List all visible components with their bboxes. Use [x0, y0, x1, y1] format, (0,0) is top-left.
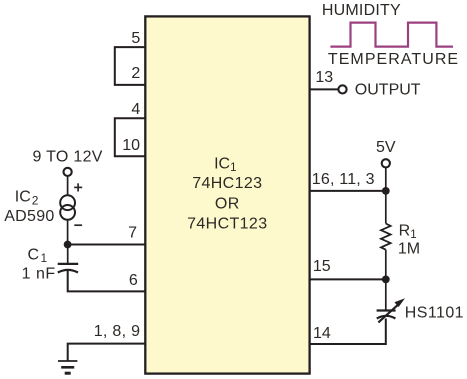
- svg-text:1, 8, 9: 1, 8, 9: [94, 323, 141, 340]
- svg-text:10: 10: [122, 137, 140, 154]
- wire: jumper connecting pin 4 to pin 10: [115, 118, 146, 156]
- svg-text:16, 11, 3: 16, 11, 3: [312, 171, 375, 188]
- svg-text:9 TO 12V: 9 TO 12V: [32, 149, 102, 166]
- wire: IC2 to junction: [67, 220, 69, 245]
- wire: terminal to IC2: [67, 176, 69, 196]
- junction: node A (IC2 / C1 / pin7): [64, 241, 72, 249]
- svg-text:1M: 1M: [398, 241, 420, 258]
- wire: pins 16,11,3 to junction: [310, 190, 386, 192]
- wire: HS1101 to pin 14: [310, 319, 386, 345]
- wire: C1 to pin 6 corner: [68, 271, 146, 292]
- svg-text:13: 13: [315, 69, 333, 86]
- terminal: 5V supply: [382, 159, 390, 167]
- ground symbol: [58, 361, 77, 373]
- svg-text:R: R: [399, 223, 411, 240]
- variable capacitor HS1101 top plate: [377, 309, 396, 311]
- resistor R1: [381, 224, 391, 250]
- wire: pin 15 to junction C: [310, 278, 386, 280]
- svg-text:HS1101: HS1101: [405, 305, 464, 322]
- IC1 label text: [187, 155, 267, 232]
- wire: R1 to junction C: [385, 250, 387, 280]
- wire: 5V terminal to junction: [385, 168, 387, 191]
- svg-text:1: 1: [41, 253, 47, 265]
- svg-text:6: 6: [129, 272, 138, 289]
- wire: junction down to C1: [67, 245, 69, 264]
- capacitor C1 curved bottom plate: [58, 270, 78, 273]
- svg-text:4: 4: [131, 101, 140, 118]
- terminal: OUTPUT: [338, 85, 346, 93]
- junction: node C (R1 / HS1101 / pin 15): [382, 276, 390, 284]
- polarity plus sign: [74, 183, 82, 191]
- IC2 AD590 current source symbol (two overlapping circles): [60, 195, 75, 220]
- wire: pin 13 to output terminal: [310, 88, 338, 90]
- svg-text:74HCT123: 74HCT123: [187, 215, 267, 232]
- capacitor C1 top plate: [58, 263, 78, 265]
- svg-text:C: C: [27, 246, 39, 263]
- wire: jumper connecting pin 5 to pin 2: [115, 47, 146, 85]
- waveform: humidity/temperature square wave: [330, 23, 453, 47]
- svg-text:1 nF: 1 nF: [22, 266, 56, 283]
- svg-text:14: 14: [313, 325, 331, 342]
- svg-text:74HC123: 74HC123: [192, 175, 262, 192]
- variable capacitor arrow: [378, 298, 405, 322]
- wire: junction C down to HS1101: [385, 279, 387, 310]
- svg-text:IC: IC: [15, 189, 31, 206]
- svg-text:5V: 5V: [376, 139, 396, 156]
- terminal: 9-12V input: [64, 168, 72, 176]
- variable capacitor HS1101 curved bottom plate: [377, 316, 396, 319]
- polarity minus sign: [74, 224, 82, 226]
- svg-text:TEMPERATURE: TEMPERATURE: [328, 51, 459, 68]
- svg-text:OR: OR: [215, 195, 240, 212]
- svg-text:1: 1: [410, 229, 416, 241]
- svg-text:OUTPUT: OUTPUT: [355, 82, 421, 99]
- svg-text:5: 5: [131, 30, 140, 47]
- junction: node B (5V / R1 / pins 16,11,3): [382, 187, 390, 195]
- IC U1 body (IC1 74HC123): [145, 16, 309, 373]
- svg-text:2: 2: [131, 65, 140, 82]
- svg-text:7: 7: [128, 225, 137, 242]
- svg-text:2: 2: [32, 193, 39, 207]
- svg-text:HUMIDITY: HUMIDITY: [322, 2, 401, 19]
- svg-text:15: 15: [313, 258, 331, 275]
- wire: pins 1,8,9 to ground: [68, 344, 146, 361]
- svg-text:AD590: AD590: [4, 208, 54, 225]
- wire: junction to R1: [385, 191, 387, 224]
- wire: junction to pin 7: [68, 244, 146, 246]
